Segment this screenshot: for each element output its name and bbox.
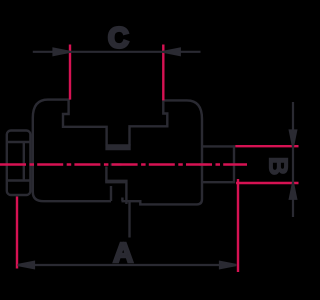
dim A left extension line (red) [16, 197, 18, 269]
drain extension line below body [128, 202, 130, 238]
svg-text:B: B [264, 157, 294, 176]
outlet pipe top edge [201, 145, 233, 147]
cartridge wall lower-right [125, 183, 127, 204]
cartridge wall lower-left [105, 167, 107, 182]
dim A right extension line (red) [237, 179, 239, 272]
nut N1 outline [7, 131, 31, 196]
cartridge bottom stub [121, 198, 123, 202]
nut facet line bottom [6, 179, 30, 181]
cartridge crossbar lower [105, 180, 127, 184]
axis dark dash center [111, 163, 122, 165]
nut inner vertical [23, 142, 25, 181]
dim C right arrowhead [163, 49, 180, 55]
dim C left extension line (red) [69, 45, 71, 100]
outlet pipe bottom edge [201, 181, 233, 183]
dim A left arrowhead [18, 262, 34, 268]
dim C left arrowhead [54, 49, 71, 55]
dim B top arrowhead [290, 131, 296, 147]
body outline [33, 100, 202, 205]
dim A line [18, 264, 236, 266]
svg-text:A: A [113, 237, 133, 268]
dim B top extension line (red) [235, 145, 298, 147]
axis dark dash at body right edge [199, 163, 208, 165]
dim B bottom arrowhead [290, 183, 296, 199]
cartridge crossbar top [107, 144, 130, 149]
center axis line (red dash-dot) [0, 163, 247, 165]
dim B line [292, 102, 294, 217]
nut facet line top [6, 141, 30, 143]
dim B bottom extension line (red) [236, 182, 299, 184]
bottom channel wall left [110, 186, 112, 201]
outlet pipe end face [233, 145, 235, 183]
dim A right arrowhead [220, 262, 236, 268]
svg-text:C: C [108, 22, 129, 54]
dim C right extension line (red) [162, 45, 164, 101]
dim C line [33, 51, 201, 53]
